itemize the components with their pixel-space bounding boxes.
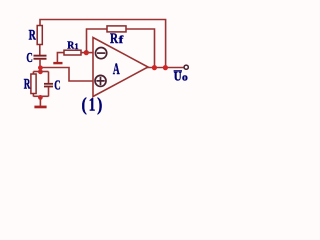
wire: series R bottom to series C top <box>39 45 41 56</box>
op-amp non-inverting input circle (plus) <box>95 75 106 86</box>
wire: R1 left end to ground <box>57 53 64 62</box>
resistor R (parallel branch) with stubs <box>32 72 34 97</box>
svg-text:U: U <box>174 69 182 84</box>
svg-text:): ) <box>97 94 102 115</box>
op-amp A triangle <box>93 38 148 97</box>
output terminal (open circle) <box>184 65 188 69</box>
node junction dot (parallel RC top) <box>38 69 43 74</box>
junction dot (outer loop tap on output) <box>163 65 168 70</box>
svg-text:C: C <box>26 51 32 66</box>
resistor R (series, top-left) <box>37 26 42 45</box>
wire: parallel RC top rail <box>33 71 48 73</box>
svg-text:(: ( <box>82 94 87 115</box>
svg-text:o: o <box>182 73 188 84</box>
svg-text:R: R <box>29 28 36 44</box>
wire: outer feedback loop from left RC branch top to output node <box>40 20 166 67</box>
capacitor C (parallel branch) with stubs <box>48 72 50 97</box>
svg-text:f: f <box>119 34 124 46</box>
svg-text:C: C <box>54 79 60 94</box>
svg-text:1: 1 <box>89 94 96 115</box>
resistor R1 <box>64 50 81 55</box>
wire: node to non-inverting input (jog) <box>40 68 93 82</box>
junction dot (inverting input node) <box>84 50 89 55</box>
svg-text:R: R <box>24 76 31 92</box>
node junction dot (to + input) <box>38 65 43 70</box>
resistor Rf <box>107 26 126 32</box>
ground (bottom) <box>34 106 46 109</box>
wire: op-amp output to terminal <box>146 67 184 69</box>
wire: bottom node to ground <box>39 97 41 106</box>
wire: R1 right end to inverting input <box>81 52 93 54</box>
label Uo with overbar <box>174 70 182 72</box>
svg-text:R: R <box>110 31 118 47</box>
junction dot (bottom of parallel RC) <box>38 95 43 100</box>
svg-text:1: 1 <box>75 42 79 51</box>
wire: parallel RC bottom rail <box>33 95 48 97</box>
ground (R1 branch) <box>53 62 62 64</box>
svg-text:A: A <box>113 61 120 78</box>
wire: feedback from inverting node up and right to Rf <box>87 29 108 53</box>
wire: series C bottom down to node <box>39 60 41 72</box>
op-amp inverting input circle (minus) <box>96 48 107 59</box>
capacitor C (series) plates <box>34 55 47 57</box>
junction dot (inner feedback tap on output) <box>152 65 157 70</box>
wire: Rf right end down to output node <box>126 29 155 66</box>
